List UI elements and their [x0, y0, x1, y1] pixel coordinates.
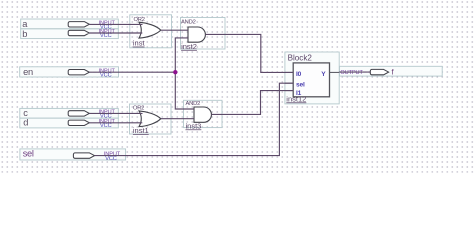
wire inst2 output to Block2 I0	[205, 34, 293, 72]
port stub I0	[285, 71, 293, 73]
svg-text:VCC: VCC	[100, 33, 112, 39]
pin d arrow symbol	[68, 120, 89, 125]
svg-text:inst12: inst12	[286, 94, 306, 103]
input pin en	[20, 67, 119, 79]
svg-text:inst1: inst1	[133, 126, 149, 135]
pin c arrow symbol	[68, 111, 89, 116]
svg-text:sel: sel	[296, 82, 305, 89]
pin d bounding box	[20, 118, 119, 128]
svg-text:inst: inst	[133, 39, 146, 48]
svg-text:Y: Y	[321, 71, 326, 78]
svg-text:inst2: inst2	[181, 42, 197, 51]
pin f arrow symbol	[370, 69, 388, 74]
junction en net	[173, 70, 177, 74]
svg-text:OUTPUT: OUTPUT	[340, 70, 363, 76]
svg-text:c: c	[23, 108, 28, 118]
and-gate U4 (inst3)	[184, 100, 223, 130]
pin en arrow symbol	[68, 70, 89, 75]
svg-text:en: en	[23, 67, 33, 77]
input pin sel	[20, 148, 126, 161]
pin a bounding box	[21, 19, 119, 29]
wire inst1 output to inst3 input 2	[161, 118, 194, 120]
input pin d	[20, 118, 119, 129]
port stub I1	[285, 90, 293, 92]
pin sel bounding box	[20, 149, 126, 160]
svg-text:VCC: VCC	[105, 156, 117, 162]
port stub sel	[285, 82, 293, 84]
wire en vertical segment to inst2 input 2 and inst3 input 1	[175, 38, 194, 109]
svg-text:VCC: VCC	[100, 72, 112, 78]
wire a to inst input 1	[89, 23, 142, 25]
input pin c	[20, 108, 119, 119]
output pin f	[340, 66, 443, 76]
svg-text:d: d	[23, 118, 28, 128]
svg-text:inst3: inst3	[186, 121, 202, 130]
wire d to inst1 input 2	[89, 122, 142, 124]
wire c to inst1 input 1	[89, 112, 142, 114]
input pin a	[21, 19, 119, 31]
block body rectangle	[293, 63, 329, 97]
AND2 gate body inst2	[188, 27, 205, 42]
inst12 bounding box	[285, 52, 339, 104]
wire inst3 output to Block2 I1	[211, 91, 293, 115]
pin a arrow symbol	[68, 22, 89, 27]
and-gate U2 (inst2)	[181, 18, 226, 51]
pin c bounding box	[20, 108, 119, 118]
pin f bounding box	[340, 66, 443, 76]
svg-text:I0: I0	[296, 71, 302, 78]
svg-text:Block2: Block2	[288, 54, 313, 63]
inst2 bounding box	[181, 18, 226, 50]
OR2 gate body inst1	[139, 111, 161, 127]
OR2 gate body inst	[139, 22, 161, 38]
wire en horizontal segment	[89, 71, 175, 73]
svg-text:VCC: VCC	[100, 123, 112, 129]
wire b to inst input 2	[89, 32, 142, 34]
svg-text:AND2: AND2	[186, 101, 201, 107]
pin b arrow symbol	[68, 30, 89, 35]
inst bounding box	[130, 15, 172, 48]
svg-text:b: b	[22, 29, 27, 39]
block Block2 (inst12)	[285, 52, 339, 104]
inst3 bounding box	[184, 100, 223, 127]
pin en bounding box	[20, 67, 119, 77]
inst1 bounding box	[130, 104, 172, 134]
input pin b	[21, 29, 119, 39]
svg-text:AND2: AND2	[181, 20, 196, 26]
or-gate U3 (inst1)	[130, 104, 172, 135]
or-gate U1 (inst)	[130, 15, 172, 48]
svg-text:sel: sel	[23, 148, 34, 158]
wire Block2 Y to output pin f	[339, 71, 370, 73]
wire sel to Block2 sel	[95, 83, 294, 155]
pin b bounding box	[21, 29, 119, 39]
port stub Y	[330, 71, 340, 73]
wire inst output to inst2 input 1	[161, 29, 188, 31]
pin sel arrow symbol	[73, 153, 94, 158]
AND2 gate body inst3	[194, 107, 211, 122]
